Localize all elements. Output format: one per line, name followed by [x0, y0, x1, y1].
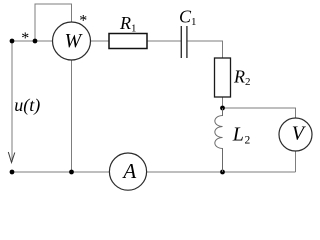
wire: wattmeter bottom terminal down to bottom rail: [71, 60, 73, 172]
ammeter A (circle): [109, 153, 146, 190]
wire: C1 to corner and down to R2: [187, 41, 223, 58]
wire: bottom rail left segment (left node to A left side): [12, 171, 110, 173]
capacitor C1: [181, 26, 187, 58]
wire: node to voltmeter branch top: [223, 108, 296, 118]
svg-text:A: A: [121, 159, 136, 183]
svg-text:*: *: [79, 13, 87, 30]
svg-text:u(t): u(t): [14, 95, 40, 116]
arrow head of u(t) source arrow: [8, 152, 15, 163]
voltmeter V (circle): [279, 118, 312, 151]
wire: voltmeter bottom down to bottom rail: [295, 151, 297, 172]
node A (top left terminal): [10, 39, 15, 44]
wire: W right terminal to R1 handled above; wire R1 to C1: [147, 40, 181, 42]
wattmeter W (circle): [53, 22, 91, 60]
inductor L2 (coil): [215, 108, 223, 172]
wire: wattmeter voltage-coil loop: [35, 4, 72, 41]
node E (junction below R2 / top of L2): [220, 106, 225, 111]
wire: top main wire from left node to R1: [12, 40, 109, 42]
node C (bottom left terminal): [10, 170, 15, 175]
node B (wattmeter voltage tap): [33, 39, 38, 44]
node D (wattmeter bottom junction): [69, 170, 74, 175]
wire: bottom rail right segment (L2 node to V branch): [223, 171, 296, 173]
wire: left source rail with arrow shaft: [11, 41, 13, 162]
resistor R2: [215, 58, 231, 97]
wire: bottom rail middle segment (A right side to L2 node): [147, 171, 223, 173]
wire: R2 bottom to node below: [222, 97, 224, 108]
node F (bottom of L2 on bottom rail): [220, 170, 225, 175]
svg-text:*: *: [21, 30, 29, 47]
svg-text:W: W: [64, 30, 83, 52]
resistor R1: [109, 34, 147, 49]
